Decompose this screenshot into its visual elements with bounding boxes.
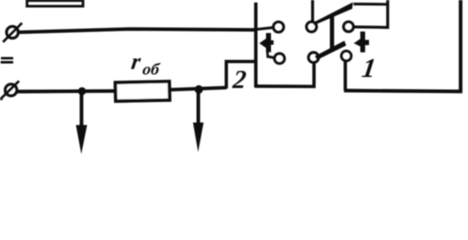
wire: resistor to step corner — [170, 88, 227, 90]
wire: stub to socket circle C2 — [267, 56, 275, 57]
switch blade (lower pole) — [315, 41, 346, 60]
terminal X2 (bottom, circle with slash) — [0, 81, 19, 100]
plug pin of contact 1 (bar with wedge) — [354, 32, 369, 53]
wire: C6 down to bottom rail — [344, 62, 347, 91]
terminal X1 (top, circle with slash) — [3, 23, 22, 42]
wire: bottom loop to lower switch contact — [255, 64, 315, 87]
resistor Rob — [115, 81, 169, 101]
wire: terminal X1 to node at left edge of switch area — [20, 29, 257, 32]
wire: bottom rail and right edge (cut at top) — [344, 0, 461, 91]
top-left partial box (cut off at top edge) — [27, 1, 83, 7]
switch contact circle C3 (upper pole, left) — [306, 22, 316, 32]
label r_ob — [130, 48, 162, 78]
arrow 2 (current direction, down) — [193, 92, 204, 152]
junction dot (node to arrow 2) — [195, 85, 203, 93]
svg-text:1: 1 — [360, 53, 378, 83]
switch contact circle C5 (lower pole, left) — [308, 52, 318, 62]
arrow 1 (current direction, down) — [76, 93, 87, 154]
switch blade (upper pole) — [314, 2, 353, 25]
socket circle C2 (bottom of connector 2) — [274, 53, 284, 63]
wire: step up to contact 2 level — [226, 62, 256, 89]
plug pin of connector 2 (bar with wedge) — [259, 33, 273, 52]
wire: from top edge down to switch contact C3 — [311, 0, 314, 22]
socket circle C1 (top of connector 2) — [273, 22, 283, 32]
junction dot (node to arrow 1) — [78, 87, 86, 95]
wire: main vertical bus at left of connector — [254, 3, 257, 88]
wire: stub to socket circle C1 — [257, 28, 273, 30]
mechanical link bar between poles — [330, 16, 334, 49]
wire: top horizontal segment (cut by crop) — [354, 3, 390, 6]
DC symbol = — [1, 57, 14, 64]
svg-text:r: r — [130, 48, 144, 74]
svg-text:об: об — [141, 60, 161, 79]
svg-text:2: 2 — [231, 65, 248, 94]
switch contact circle C6 (lower pole, right) — [341, 51, 351, 61]
wire: hook from pin bar to stub — [266, 52, 269, 57]
switch contact circle C4 (upper pole, right) — [344, 22, 354, 32]
wire: C4 right, up and along the top (cut) — [355, 0, 388, 27]
wire: terminal X2 to resistor — [17, 89, 116, 93]
